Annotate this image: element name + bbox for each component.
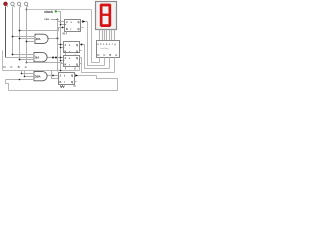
flip-flop FF2 [63, 42, 82, 56]
wire feedback corner left [6, 80, 9, 91]
clock label [44, 10, 53, 14]
node FF4 Q [75, 74, 78, 77]
svg-text:clock: clock [44, 10, 53, 14]
wire FF4 clk branch [52, 71, 59, 79]
wire display pin c [104, 30, 106, 41]
wire A horizontal to right [27, 9, 92, 11]
svg-text:Q: Q [78, 20, 80, 24]
node U2 out b [55, 57, 57, 59]
svg-text:D/A: D/A [36, 37, 41, 41]
wire clock branch FF2 [61, 47, 64, 49]
segment d [101, 24, 111, 27]
wire label-box bottom [3, 70, 80, 72]
wire FF3 Q out [80, 58, 115, 73]
node FF1 K pin [62, 27, 64, 29]
wire U1 in1 [13, 36, 36, 38]
svg-text:Q: Q [71, 74, 73, 78]
wire FF3 qbar drop [79, 67, 81, 71]
wire display pin b [102, 30, 104, 41]
reset label [45, 17, 50, 21]
svg-text:abcdefg: abcdefg [97, 43, 116, 46]
node A top [26, 9, 28, 11]
wire FF1 Q to decoder C [88, 22, 105, 66]
wire decoder pin B [109, 58, 111, 69]
wire D vertical (active) [5, 7, 7, 58]
node U3 in1 [21, 73, 23, 75]
wire U2 out [48, 57, 64, 59]
wire FF4 Q out [75, 75, 97, 77]
wire U1 out down to FF2 [58, 39, 64, 45]
svg-text:BA: BA [35, 56, 39, 60]
flip-flop FF4 [58, 73, 77, 88]
wire U2 in2 [6, 57, 35, 59]
input switch SW4 [24, 2, 28, 7]
svg-text:Q: Q [78, 27, 80, 31]
node reset [57, 19, 59, 21]
node res bottom [57, 70, 59, 72]
svg-text:Q: Q [76, 56, 78, 60]
segment g [101, 14, 111, 16]
wire clock vertical bus [60, 12, 62, 71]
wire A vertical [26, 7, 28, 63]
svg-text:Q: Q [76, 50, 78, 54]
wire U1 out [49, 38, 58, 40]
svg-text:r: r [71, 29, 72, 31]
input switch SW1 (on, red) [4, 2, 8, 7]
node FF1 J pin [60, 21, 62, 23]
svg-text:r: r [69, 65, 70, 67]
svg-text:hex7seg: hex7seg [101, 48, 110, 50]
and-gate U2 [34, 53, 47, 62]
clock indicator (green) [55, 10, 57, 12]
wire B branch to FF1 K [20, 28, 65, 31]
wire FF4 feedback down [9, 76, 118, 91]
segment f [100, 4, 103, 15]
node U3 out [52, 75, 54, 77]
svg-text:K: K [65, 63, 67, 67]
node clock FF4 [60, 70, 62, 72]
wire FF1 J stub [58, 21, 65, 23]
wire FF1 Q out [82, 21, 88, 23]
wire right bus down [92, 10, 100, 63]
svg-text:B: B [18, 65, 20, 69]
wire decoder pin D [99, 58, 101, 63]
node U3 in2 [24, 76, 26, 78]
node U1 in2 [19, 38, 21, 40]
wire U1 in3 [27, 41, 36, 43]
node FF2 J pin [60, 44, 62, 46]
node U3 in3 tap [19, 79, 21, 81]
bus label row DCBA [3, 65, 27, 69]
wire decoder pin C [104, 58, 106, 66]
wire U2 in3 [20, 59, 35, 61]
wire U1 in2 [20, 38, 36, 40]
node FF2 Q [81, 44, 83, 46]
node U2 out a [52, 57, 54, 59]
svg-text:r: r [64, 82, 65, 84]
svg-text:Q: Q [76, 43, 78, 47]
svg-text:K: K [66, 27, 68, 31]
node bottom A [26, 62, 28, 64]
wire FF2 Q out [80, 45, 110, 69]
decoder U5 (7447) [97, 41, 120, 58]
node U1 out junction [57, 38, 59, 40]
wire display pin d [106, 30, 108, 41]
wire display pin g [114, 30, 116, 41]
segment b [109, 4, 112, 15]
segment e [100, 15, 103, 26]
svg-text:K: K [60, 80, 62, 84]
node FF1 Q [82, 20, 85, 23]
node U1 in1 [12, 36, 14, 38]
wire B vertical [19, 7, 21, 60]
wire clock branch FF3 [61, 60, 64, 62]
wire U3 in3 [6, 79, 35, 81]
node B branch [19, 30, 21, 32]
wire C vertical [12, 7, 14, 55]
display DS1 (7-segment) [96, 2, 117, 30]
wire U3 out [48, 75, 59, 77]
wire reset vertical bus [57, 20, 59, 71]
flip-flop FF1 [65, 20, 84, 35]
segment c [109, 15, 112, 26]
wire display pin a [99, 30, 101, 41]
and-gate U3 [34, 72, 47, 81]
node bottom B [19, 59, 21, 61]
wire clock branch FF1 [61, 24, 65, 26]
wire label-box left [2, 51, 4, 71]
node FF3 J pin [60, 57, 62, 59]
wire clock to bus [58, 12, 61, 14]
node clock FF1 [60, 24, 62, 26]
wire U3 in2 [25, 71, 35, 77]
input switch SW2 [11, 2, 15, 7]
node clock FF3 [60, 60, 62, 62]
svg-text:Q: Q [71, 80, 73, 84]
segment a [101, 4, 111, 7]
and-gate U1 [35, 34, 48, 43]
node bottom C [12, 54, 14, 56]
label FF4 squiggle [61, 86, 65, 88]
svg-text:res: res [45, 17, 50, 21]
wire display pin f [111, 30, 113, 41]
wire U3 in1 [22, 71, 35, 74]
node U1 in3 [26, 41, 28, 43]
svg-text:DBA: DBA [35, 75, 41, 79]
svg-text:r: r [69, 52, 70, 54]
wire reset horizontal [51, 19, 58, 21]
input switch SW3 [17, 2, 21, 7]
flip-flop FF3 [63, 56, 82, 70]
wire decoder pin A [114, 58, 116, 73]
svg-text:Q: Q [76, 63, 78, 67]
wire U2 in1 [13, 54, 35, 56]
wire display pin e [109, 30, 111, 41]
node clock FF2 [60, 47, 62, 49]
wire A to FF3 [27, 63, 64, 64]
